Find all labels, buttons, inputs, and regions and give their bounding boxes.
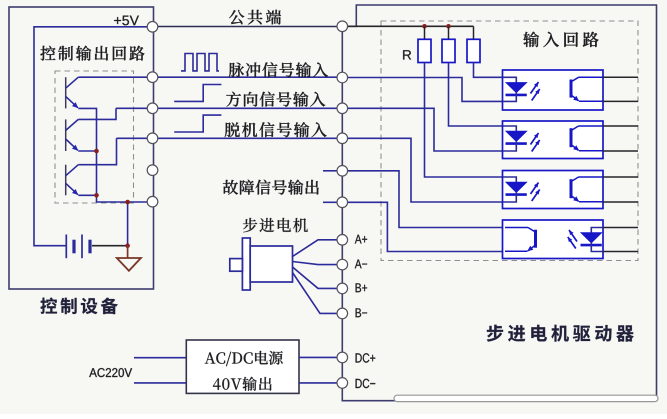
label control output loop — [40, 46, 144, 61]
U1 phototransistor — [570, 80, 573, 98]
label +5V — [114, 16, 139, 26]
wire motor B+ — [293, 267, 338, 288]
wire R1 stem — [424, 26, 426, 39]
label gong-gong-duan (common) — [229, 10, 281, 25]
node driver fault2 terminal — [337, 197, 348, 208]
wire U4 outputs — [603, 227, 638, 229]
wire direction row — [116, 107, 337, 109]
label 40V output — [213, 377, 272, 391]
wire pulse row — [78, 76, 337, 78]
transistor Q1 — [65, 77, 67, 108]
wire common to resistors — [348, 25, 474, 27]
label pulse signal input — [229, 62, 328, 77]
U2 phototransistor — [570, 128, 573, 147]
opto-coupler U2 — [503, 121, 604, 159]
U1 LED — [503, 77, 517, 83]
wire motor A- — [293, 262, 338, 265]
label A− — [355, 260, 367, 269]
wire common — [158, 26, 337, 28]
resistor R3 — [467, 39, 480, 62]
junction dot R2 top — [446, 24, 451, 29]
opto-coupler U1 — [503, 70, 604, 110]
wire fault stub lower — [323, 201, 337, 203]
label DC− — [356, 379, 376, 388]
input loop dashed box — [381, 21, 638, 261]
label control device — [41, 298, 118, 315]
wire U3 outputs — [603, 176, 638, 178]
label stepper motor driver — [487, 325, 634, 342]
label B+ — [356, 283, 368, 292]
wire fault stub upper — [323, 170, 337, 172]
wire R2 stem — [448, 26, 450, 39]
wire emitter bus — [78, 108, 147, 202]
wire direction to opto2 cathode — [348, 108, 503, 151]
wire R2 to opto2 anode — [449, 63, 503, 127]
node driver pulse terminal — [337, 72, 348, 83]
wire fault2 to opto4 — [348, 202, 506, 251]
node driver DC+ terminal — [337, 352, 348, 363]
opto-coupler U4 — [503, 220, 604, 259]
opto-coupler U3 — [503, 171, 604, 209]
label fault signal output — [223, 180, 319, 195]
U3 light arrows — [531, 183, 539, 195]
node driver DC- terminal — [337, 378, 348, 389]
node driver direction terminal — [337, 103, 348, 114]
node driver common terminal — [337, 21, 348, 32]
junction dot Q3 emitter — [94, 193, 99, 198]
label R — [403, 50, 411, 59]
resistor R1 — [418, 39, 431, 62]
wire Q2 collector jog — [78, 108, 116, 119]
node driver offline terminal — [337, 133, 348, 144]
wire battery to junction — [92, 245, 128, 247]
AC/DC power supply PS1 — [186, 340, 299, 393]
wire U2 outputs — [603, 125, 638, 127]
resistor R2 — [442, 39, 455, 62]
wire R1 to opto3 anode — [425, 63, 503, 178]
junction dot Q2 emitter — [94, 149, 99, 154]
label AC220V — [89, 368, 132, 377]
node driver A- terminal — [337, 259, 348, 270]
pulse waveform — [181, 54, 219, 71]
wire motor A+ — [293, 240, 338, 257]
label B− — [356, 308, 368, 317]
junction dot R1 top — [422, 24, 427, 29]
label offline signal input — [225, 122, 327, 137]
offline waveform — [174, 115, 221, 132]
wire fault1 to opto4 — [348, 171, 506, 228]
wire DC+ out — [299, 356, 337, 358]
control output dashed box — [55, 71, 134, 203]
label stepper motor — [243, 218, 308, 232]
wire +5V rail — [34, 27, 147, 246]
label DC+ — [356, 353, 376, 362]
stepper motor M1 — [242, 238, 250, 290]
U3 LED — [503, 177, 517, 183]
wire R3 to opto1 anode — [474, 63, 503, 78]
node control pulse terminal — [147, 72, 158, 83]
decor pill — [394, 395, 658, 401]
ground — [127, 246, 129, 258]
control device box — [9, 7, 154, 289]
node driver B+ terminal — [337, 283, 348, 294]
label AC/DC power — [205, 351, 283, 366]
wire DC- out — [299, 382, 337, 384]
node control fault terminal — [147, 196, 158, 207]
wire offline row — [117, 137, 338, 139]
driver box — [342, 5, 656, 401]
junction dot bus-battery — [125, 200, 130, 205]
battery B1 — [65, 235, 67, 259]
label direction signal input — [226, 92, 325, 107]
U4 LED — [591, 228, 603, 234]
node control direction terminal — [147, 103, 158, 114]
wire motor B- — [293, 273, 338, 314]
node control common terminal — [147, 22, 158, 33]
wire junction to bus — [127, 202, 129, 246]
node driver fault1 terminal — [337, 166, 348, 177]
label A+ — [355, 235, 367, 244]
wire pulse to opto1 cathode — [348, 78, 503, 102]
wire R3 stem — [473, 26, 475, 39]
wire U1 outputs — [603, 76, 638, 78]
U2 light arrows — [531, 133, 539, 145]
node control reserve terminal — [147, 165, 158, 176]
direction waveform — [174, 85, 221, 102]
wire offline to opto3 cathode — [348, 138, 504, 202]
U1 light arrows — [531, 82, 539, 94]
U2 LED — [503, 126, 517, 132]
wire AC in 2 — [134, 382, 186, 384]
node driver A+ terminal — [337, 235, 348, 246]
node control offline terminal — [147, 133, 158, 144]
wire AC in 1 — [134, 357, 186, 359]
wire Q3 collector jog — [78, 138, 116, 164]
transistor Q2 — [65, 119, 67, 151]
U3 phototransistor — [570, 179, 573, 198]
transistor Q3 — [65, 165, 67, 196]
U4 light arrows — [569, 230, 577, 242]
junction dot ground — [125, 243, 130, 248]
U4 phototransistor — [534, 230, 537, 248]
node driver B- terminal — [337, 308, 348, 319]
label input loop — [523, 32, 598, 47]
